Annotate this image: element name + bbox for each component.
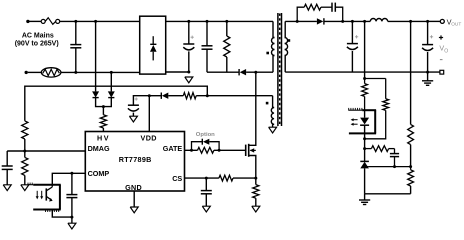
resistor R11 parallel [365, 79, 389, 139]
wire [285, 20, 317, 22]
wire CS [185, 177, 219, 179]
node junction [426, 20, 429, 23]
label primary phase dot [266, 52, 269, 55]
svg-text:GATE: GATE [163, 144, 183, 153]
wire [192, 142, 203, 151]
ground [359, 194, 370, 205]
fuse F1 [41, 18, 60, 25]
node junction [206, 94, 209, 97]
node junction [409, 20, 412, 23]
node junction [187, 71, 190, 74]
svg-text:COMP: COMP [88, 169, 110, 178]
node junction [393, 165, 396, 168]
label C8 polarity [355, 35, 358, 38]
wire [30, 20, 42, 22]
node junction [23, 150, 26, 153]
wire [61, 71, 140, 73]
transformer T1 primary winding [272, 21, 275, 72]
shunt regulator U3 TL431 [360, 161, 369, 168]
capacitor C8 output [347, 21, 358, 72]
optocoupler U2 LED [348, 108, 376, 133]
label secondary phase dot [288, 39, 291, 42]
wire [96, 98, 112, 107]
capacitor C1 bulk [183, 21, 194, 72]
resistor R3 VDD [183, 93, 196, 99]
node junction [363, 137, 366, 140]
svg-text:HV: HV [97, 134, 110, 143]
capacitor C2 clamp [202, 21, 213, 72]
node junction [341, 20, 344, 23]
wire [102, 128, 104, 132]
transformer T1 core [278, 13, 282, 126]
resistor R2 HV [100, 115, 106, 128]
svg-text:GND: GND [125, 183, 142, 192]
optocoupler U2 phototransistor [28, 183, 61, 212]
wire [365, 78, 386, 80]
wire [24, 175, 26, 184]
wire [52, 210, 72, 218]
node junction [94, 20, 97, 23]
node junction [363, 20, 366, 23]
diode D4 VDD [161, 93, 168, 99]
resistor R8 DMAG lower [22, 151, 28, 175]
node junction [205, 177, 208, 180]
ground [269, 127, 277, 133]
resistor R10 opto bias [362, 79, 368, 97]
node junction [206, 20, 209, 23]
svg-text:(90V to 265V): (90V to 265V) [15, 41, 59, 48]
wire [364, 96, 366, 110]
wire VDD pin [148, 96, 150, 132]
node junction [363, 77, 366, 80]
node junction [70, 216, 73, 219]
svg-text:RT7789B: RT7789B [119, 155, 152, 164]
node junction [74, 20, 77, 23]
node junction [351, 20, 354, 23]
wire [110, 72, 112, 91]
node junction [74, 71, 77, 74]
wire [325, 20, 353, 22]
capacitor C3 VDD [128, 96, 149, 117]
wire [364, 149, 366, 162]
label Option [196, 132, 215, 138]
node VOUT terminal [440, 19, 444, 23]
node junction [225, 20, 228, 23]
resistor R1 clamp [224, 21, 230, 72]
resistor R5 sense [253, 178, 259, 198]
wire [24, 139, 26, 151]
node AC line 1 input terminal [26, 20, 29, 23]
svg-text:DMAG: DMAG [88, 144, 110, 153]
ground [3, 185, 11, 191]
node output return terminal [440, 70, 444, 74]
label VOUT [447, 17, 462, 27]
wire feedback tap [364, 21, 366, 78]
ground [68, 223, 76, 229]
wire COMP [52, 173, 85, 184]
label C3 polarity [135, 97, 138, 100]
wire source [255, 158, 257, 178]
wire GND pin [133, 191, 135, 207]
node junction [102, 105, 105, 108]
svg-text:AC Mains: AC Mains [22, 32, 54, 39]
wire [410, 145, 412, 167]
node junction [254, 177, 257, 180]
ground [202, 206, 210, 212]
diode D2 [92, 91, 99, 97]
resistor R4 gate [198, 147, 214, 153]
capacitor CX1 [70, 21, 81, 72]
inductor L1 [352, 18, 427, 21]
resistor R13 divider upper [408, 124, 414, 144]
capacitor C6 COMP [66, 173, 77, 217]
label AC Mains [15, 32, 59, 47]
resistor R14 divider lower [408, 167, 414, 186]
wire [365, 193, 411, 195]
wire [428, 20, 441, 22]
capacitor C5 DMAG [2, 151, 13, 185]
wire [95, 21, 97, 91]
ground [129, 116, 137, 122]
snubber capacitor C7 [321, 3, 343, 22]
wire [196, 95, 272, 97]
transformer T1 secondary winding [285, 21, 288, 72]
transformer T1 auxiliary winding [271, 96, 274, 128]
wire [410, 186, 412, 194]
wire [28, 71, 42, 73]
capacitor C4 CS filter [201, 178, 212, 206]
transistor Q1 [246, 142, 256, 158]
wire [166, 71, 189, 73]
op-amp U1 RT7789B [85, 132, 184, 193]
svg-text:VDD: VDD [141, 134, 157, 143]
ground [21, 185, 29, 191]
label output polarity plus [439, 35, 443, 39]
capacitor C10 compensation [389, 149, 400, 167]
capacitor C9 output [422, 21, 433, 72]
ground [130, 207, 138, 213]
ground [422, 72, 433, 85]
resistor R12 compensation [365, 146, 389, 152]
node junction [218, 149, 221, 152]
wire DMAG [7, 150, 85, 152]
node junction [190, 149, 193, 152]
diode D3 [108, 91, 115, 97]
label C1 polarity [191, 36, 194, 39]
wire [207, 71, 239, 73]
ground [252, 206, 260, 212]
wire [214, 149, 246, 151]
wire [364, 133, 366, 148]
wire reference [369, 166, 411, 168]
label C9 polarity [430, 35, 433, 38]
svg-text:O: O [444, 48, 448, 54]
wire [25, 86, 208, 121]
node junction [296, 20, 299, 23]
diode D1 clamp [239, 69, 246, 75]
node AC line 2 input terminal [25, 71, 28, 74]
bridge rectifier BD1 [140, 16, 166, 74]
svg-text:OUT: OUT [451, 22, 461, 28]
resistor R7 DMAG upper [22, 121, 28, 139]
wire [102, 107, 104, 115]
label VO [439, 44, 448, 55]
thermistor RT1 [41, 68, 61, 77]
svg-text:CS: CS [172, 174, 182, 183]
wire [364, 168, 366, 193]
node junction [254, 71, 257, 74]
svg-text:Option: Option [196, 132, 215, 138]
node junction [187, 20, 190, 23]
diode D5 gate option [202, 139, 209, 145]
wire GATE [185, 149, 198, 151]
node junction [110, 71, 113, 74]
ground [185, 77, 193, 83]
wire [209, 142, 219, 151]
wire secondary return [285, 71, 440, 73]
node junction [363, 147, 366, 150]
label auxiliary phase dot [266, 102, 269, 105]
node junction [409, 165, 412, 168]
snubber resistor R9 [297, 4, 321, 21]
resistor R6 CS filter [219, 175, 233, 181]
wire [168, 95, 183, 97]
wire [149, 95, 161, 97]
wire drain [255, 72, 257, 142]
wire [233, 177, 256, 179]
wire [60, 20, 140, 22]
diode D6 output rectifier [317, 18, 324, 24]
wire divider [410, 21, 412, 124]
node junction [70, 172, 73, 175]
node junction [148, 94, 151, 97]
wire [71, 217, 73, 223]
label output polarity minus [440, 59, 443, 61]
node junction [426, 71, 429, 74]
wire [166, 20, 273, 22]
wire [246, 71, 273, 73]
wire [255, 198, 257, 206]
